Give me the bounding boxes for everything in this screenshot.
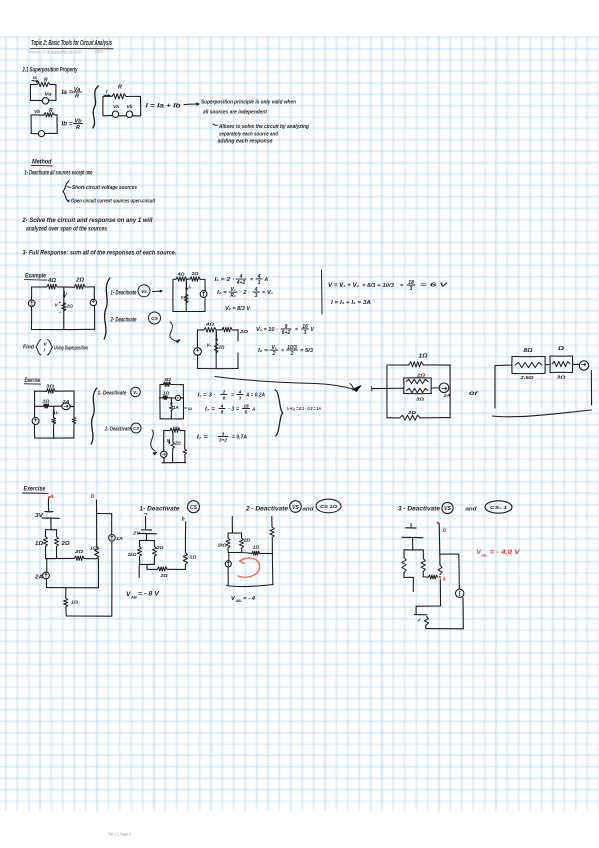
wire outer loop ex1 circuit [34,391,74,438]
svg-text:R: R [76,125,80,131]
resistor 2ohm ex1b mid [171,441,182,449]
curly brace ex1 [91,388,97,444]
svg-text:b: b [91,493,95,500]
brace ex1 results [275,390,283,436]
svg-text:R: R [118,85,122,91]
wire loop ex1 small circuit a [160,385,184,419]
wire node a down c3 [416,579,441,615]
equation ex1 I2 [205,403,256,415]
resistor 4ohm small1 [176,272,187,282]
svg-text:=: = [281,348,284,354]
voltage source Va [42,92,52,105]
current source 2A equiv [431,383,450,398]
resistor 2ohm c1 right [153,545,164,557]
svg-text:2Ω: 2Ω [155,545,164,550]
equation V2 small2 [256,324,315,336]
resistor R combined top [112,85,126,99]
current arrow I2 ex1 [53,409,59,415]
wire loop ex1 small circuit b [162,430,186,462]
long arrow to equivalent circuit [215,377,361,392]
svg-text:· 2 ·: · 2 · [240,290,250,296]
current arrow small2 [216,332,218,341]
wire loop small circuit 2 [197,330,238,369]
svg-text:separately each source and: separately each source and [219,132,279,138]
date line [30,49,104,55]
wire dangling c3 [412,578,414,592]
result VAB c2 [231,596,256,603]
svg-text:analyzed over span of the: analyzed over span of the sources [26,227,108,233]
resistor box 8ohm equiv2 [512,348,545,381]
svg-text:a: a [443,577,446,583]
resistor c3 left [402,558,406,573]
svg-text:Allows to solve the circuit by: Allows to solve the circuit by analyzing [218,124,310,130]
ex2 step 1 heading [140,501,200,513]
svg-text:adding each response: adding each response [218,139,273,145]
svg-text:Vs: Vs [141,289,147,295]
wire mid horizontal ex1a [159,397,183,399]
svg-text:1- Deactivate: 1- Deactivate [111,291,137,297]
resistor 1ohm c2 mid [252,545,260,556]
resistor 1ohm on b wire [90,546,99,559]
resistor 2ohm big bottom [74,549,84,560]
equation I = Ia + Ib [146,103,181,110]
wire middle branch small1 [185,279,187,311]
svg-text:1Ω: 1Ω [71,600,78,606]
svg-text:= 0.7A: = 0.7A [232,435,247,441]
svg-text:2Ω: 2Ω [159,573,168,578]
equation I1 line [215,274,269,286]
wire inner bottom big [47,587,99,589]
equation ex1b [197,431,248,443]
svg-text:Vb: Vb [127,104,133,109]
svg-text:a: a [50,493,54,500]
current source ex1a [175,395,180,400]
svg-text:4Ω: 4Ω [205,322,215,327]
swoosh arrow ex1 step2 [151,430,157,455]
result VAB3 red [477,549,521,558]
svg-text:1Ω: 1Ω [190,555,197,560]
svg-text:I₂ =: I₂ = [258,348,269,354]
battery 3V [35,512,59,530]
svg-text:Method: Method [32,159,52,166]
resistor R top of Va loop [37,78,50,87]
svg-text:Find: Find [23,345,35,351]
svg-text:R: R [44,78,48,84]
result VAB c1 [126,591,160,600]
svg-text:2Ω: 2Ω [242,538,251,543]
svg-text:2 - Deactivate: 2 - Deactivate [245,506,289,513]
note line2 [203,110,268,116]
svg-text:Exercise: Exercise [25,378,41,384]
svg-text:2Ω: 2Ω [416,373,426,378]
svg-text:V = V₁ + V₂: V = V₁ + V₂ [328,283,360,289]
curly brace combining circuits [93,86,98,128]
svg-text:= 6 V: = 6 V [420,283,449,289]
svg-text:=: = [250,277,253,283]
wire loop combined circuit [103,96,141,116]
svg-text:1Ω: 1Ω [35,541,43,547]
current arrow I2 small1 [186,282,192,290]
parallel box c2 [228,533,242,553]
resistor ex1a mid [170,405,179,411]
svg-text:1Ω: 1Ω [43,399,50,404]
ex2 step 2 heading [245,499,341,513]
node a label red [48,493,54,500]
current source 2A ex1 [61,399,70,410]
svg-text:Va: Va [113,104,120,109]
svg-text:5: 5 [245,409,248,415]
label approx ex1a [184,406,192,411]
heading Exercise 1 [24,378,40,384]
svg-text:I: I [66,292,68,298]
divider bar [321,270,324,314]
svg-text:I₁ = 3 ·: I₁ = 3 · [198,393,216,399]
svg-text:3: 3 [304,330,307,336]
equation Ia = Va/R [62,87,82,100]
resistor 1k c2 left [218,538,231,548]
svg-text:2Ω: 2Ω [239,329,249,334]
svg-text:10:02: 10:02 [95,49,104,54]
svg-text:= V₂: = V₂ [262,290,273,296]
parallel box c3 [404,550,424,578]
svg-text:I = I₁ + I₂ = 3A: I = I₁ + I₂ = 3A [331,300,371,306]
node a red c3 [439,576,446,583]
arrow to note [184,103,199,105]
equation ex1 total [287,406,321,412]
battery c3 [402,524,423,550]
svg-text:Open circuit current source: Open circuit current sources open-circui… [71,199,155,205]
svg-text:V₂: V₂ [207,343,212,348]
current source 2A left [34,572,50,580]
wire inner left big [46,559,48,573]
wire b to right branch [97,514,112,535]
wire box right c3 [423,576,428,578]
voltage source ex1 left [32,418,39,425]
resistor c3 to node a [429,575,438,579]
svg-text:2.5Ω: 2.5Ω [519,375,534,381]
resistor 2ohm equiv bottom [400,410,420,420]
svg-text:Ia: Ia [33,75,37,80]
method step 1 [25,171,93,177]
voltage source right example [90,299,96,305]
svg-text:V₂ = 8/3 V: V₂ = 8/3 V [225,306,251,312]
resistor 1ohm ex1a [163,391,170,400]
svg-text:I₂ =: I₂ = [217,290,228,296]
svg-text:3Ω: 3Ω [46,383,54,389]
equation I2 line [217,287,273,299]
svg-text:2.1 Superposition Property: 2.1 Superposition Property [22,67,78,74]
svg-text:1Ω: 1Ω [173,426,180,431]
resistor 1ohm c1 right branch [183,553,197,565]
svg-text:Va: Va [45,92,53,97]
swoosh arrow step2 [170,322,180,343]
svg-text:V: V [44,342,48,347]
svg-text:2: 2 [290,351,294,357]
red loop annotation [238,558,260,577]
wire bottom horizontal big [46,557,97,559]
note superposition validity line1 [201,100,296,106]
svg-text:VS: VS [444,506,451,512]
svg-text:CS: CS [133,426,139,431]
svg-text:I: I [44,348,46,353]
svg-text:Using Superposition: Using Superposition [54,346,88,352]
svg-text:CS₂ 1: CS₂ 1 [490,505,507,511]
svg-text:3: 3 [258,280,261,286]
step 2 deactivate CS [110,312,161,324]
resistor 3ohm ex1 top [46,383,55,393]
svg-text:2Ω: 2Ω [75,278,84,284]
resistor 2ohm c2 right [240,538,251,549]
result I total [331,300,371,306]
svg-text:A: A [264,277,269,283]
parallel box big circuit [45,530,56,559]
svg-text:Superposition principle is onl: Superposition principle is only valid wh… [201,100,296,106]
current source c3 [456,589,464,597]
svg-text:and: and [303,507,315,513]
svg-text:2Ω: 2Ω [190,271,199,276]
svg-text:=: = [400,283,404,289]
resistor 2ohm mid small2 [207,343,225,354]
svg-text:CS 1Ω: CS 1Ω [320,504,337,510]
svg-text:Exercise: Exercise [24,487,47,493]
svg-text:= - 8 V: = - 8 V [138,591,160,598]
node b label c1 [182,517,185,523]
wire right vertical c3 [459,554,464,629]
wire inner right big [97,559,99,588]
svg-text:I₂ =: I₂ = [205,407,216,413]
equation I2 small2 [258,345,313,357]
wire box right path c2 [242,553,273,554]
resistor 4ohm top left [47,278,57,289]
brace method options [63,181,69,202]
current source equiv2 [573,361,589,370]
ex1 step 2 [104,423,141,433]
voltage source Vb [38,131,44,137]
svg-text:1- Deactivate: 1- Deactivate [140,506,181,513]
svg-text:Ib =: Ib = [62,122,74,128]
heading Exercise 2 [23,487,49,494]
svg-text:R: R [75,94,79,100]
resistor 2ohm small1 [190,271,200,281]
svg-text:R₂: R₂ [230,293,236,299]
current arrow Ia [32,75,39,82]
resistor 2ohm big right [55,537,70,548]
wire source down c2 [227,567,229,585]
svg-text:V₀: V₀ [133,390,138,395]
svg-text:2A: 2A [442,393,450,398]
wire stub top c2 [231,517,233,534]
wire loop small circuit 1 [173,279,205,311]
parallel box c1 [140,540,155,564]
svg-text:b: b [443,527,447,534]
svg-text:V₂: V₂ [181,295,186,300]
resistor c3 bottom [418,617,429,626]
svg-text:I: I [106,90,108,96]
svg-text:Topic 2: Basic Tools for Circu: Topic 2: Basic Tools for Circuit Analysi… [31,38,112,47]
method option open-circuit [66,199,155,205]
resistor ex1b right [183,449,187,455]
svg-text:I₁+I₂ₐ = 0.1 · 0.2 = 1A: I₁+I₂ₐ = 0.1 · 0.2 = 1A [287,406,321,412]
svg-text:3: 3 [239,395,242,401]
result V total [328,280,449,292]
svg-text:2- Solve the circuit and r: 2- Solve the circuit and response on any… [21,218,152,224]
svg-text:V: V [311,327,315,333]
parallel resistor box equiv [404,378,432,394]
wire stub left equiv [372,387,404,392]
resistor 1ohm big left [35,537,48,548]
wire right vertical c2 [272,517,273,585]
voltage source left example [28,300,35,307]
note line4 [219,132,279,138]
svg-text:3: 3 [255,293,258,299]
wire bottom c2 [227,585,274,587]
node b label red [91,493,95,500]
note line3 [213,124,310,130]
svg-text:1A: 1A [116,536,124,542]
svg-text:R: R [49,108,53,114]
resistor c2 right vertical [270,527,274,538]
svg-text:3+2: 3+2 [219,437,227,443]
ex2 step 3 heading [398,501,512,514]
wire b branch c1 [184,522,186,553]
resistor 4ohm small2 [204,322,216,333]
svg-text:I = Ia + Ib: I = Ia + Ib [146,103,181,110]
svg-text:2Ω: 2Ω [407,410,417,415]
svg-text:Tab 1.2 Page 4: Tab 1.2 Page 4 [108,832,132,837]
svg-text:1A: 1A [173,405,179,410]
svg-text:Vb: Vb [34,109,40,114]
svg-text:I₂: I₂ [56,410,59,415]
svg-text:2: 2 [272,351,276,357]
wire middle horizontal ex1 [35,405,75,407]
step 1 deactivate Vs [111,285,163,297]
svg-text:2Ω: 2Ω [60,541,69,547]
wire bottom loop c3 [415,615,464,629]
svg-text:CS: CS [151,316,158,322]
svg-text:I₂: I₂ [189,285,192,290]
svg-text:2- Deactivate: 2- Deactivate [110,318,137,324]
current arrow ex1a [171,400,172,405]
resistor box 3ohm equiv2 [550,346,573,381]
word or [469,390,479,397]
svg-text:· 3 =: · 3 = [228,407,239,413]
wire node b down [96,500,98,547]
svg-text:= 5/3: = 5/3 [300,348,313,354]
svg-text:8Ω: 8Ω [524,348,533,354]
wire from node a [47,498,49,511]
svg-text:2V: 2V [132,531,141,537]
wire top left equiv2 [495,365,512,408]
resistor 3ohm equiv parallel bottom [407,388,429,401]
mark above battery c1 [145,513,148,528]
svg-text:or: or [469,390,479,397]
svg-text:6: 6 [223,395,226,401]
svg-text:2A: 2A [61,399,69,404]
wire c1 right to bottom [184,565,186,570]
curly brace example steps [104,278,110,339]
resistor 2ohm c1 bottom [158,567,168,578]
svg-text:and: and [466,507,478,513]
resistor 1ohm ex1b top [170,426,180,433]
resistor ex1 right [72,417,76,424]
resistor 3ohm ex1a [164,377,172,386]
equation Ib = Vb/R [62,118,83,131]
svg-text:I₂ =: I₂ = [197,435,209,441]
current arrow I middle [63,291,67,298]
svg-text:2- Deactivate: 2- Deactivate [104,427,131,433]
svg-text:A = 0.2A: A = 0.2A [245,393,265,399]
wire bottom path c1 [147,565,185,570]
resistor on b wire c3 [438,565,442,575]
wire mid vertical ex1b [172,431,174,463]
svg-text:=: = [231,393,234,399]
resistor ex1 mid vertical [52,418,56,425]
svg-text:1Ω: 1Ω [419,354,428,360]
wire outer box equivalent circuit 1 [387,365,451,418]
svg-text:2A: 2A [34,575,44,581]
page title handwritten "Topic 2: Basic Tools for Circuit Analysis" [30,38,113,49]
note line5 [218,139,273,145]
wire loop circuit Va [30,84,56,100]
svg-text:2Ω: 2Ω [174,441,182,446]
svg-text:4Ω: 4Ω [47,278,56,284]
current source c2 [225,561,231,567]
svg-text:=: = [295,327,298,333]
method option short-circuit [67,185,137,191]
svg-text:2Ω: 2Ω [74,549,84,555]
svg-text:1- Deactivate: 1- Deactivate [98,391,128,397]
resistor c3 right [421,559,425,572]
svg-text:A: A [251,407,256,413]
wire loop circuit Vb [31,115,57,134]
resistor 2ohm middle [55,300,74,315]
current source ex1b [161,451,167,457]
wire b down c3 [438,524,441,566]
wire between boxes equiv2 [545,364,550,366]
svg-text:+: + [59,300,62,305]
ex1 step 1 [98,387,141,397]
method step 3 [22,251,176,257]
svg-text:1kΩ: 1kΩ [218,543,227,548]
current arrow ex1b [167,438,171,444]
svg-text:1Ω: 1Ω [253,545,260,550]
wire bottom equiv2 [493,410,592,417]
heading Example [25,273,48,281]
svg-text:3- Full Response: sum all of: 3- Full Response: sum all of the respons… [22,251,176,257]
svg-text:all sources are independent: all sources are independent [203,110,268,116]
equation V2 result [225,306,251,312]
svg-text:6+2: 6+2 [282,330,291,336]
battery 2V c1 [132,530,157,541]
method step 2 line1 [21,218,152,224]
resistor 2ohm equiv parallel top [406,373,428,384]
svg-text:Example: Example [25,273,46,280]
svg-text:2Ω: 2Ω [66,304,74,310]
svg-text:= 8/3 + 10/3: = 8/3 + 10/3 [362,283,395,289]
svg-text:1Ω: 1Ω [163,391,170,396]
voltage source 10V small2 [194,348,202,356]
current arrow I combined [104,90,110,97]
voltage source Va in combined [112,104,119,117]
svg-text:= ω: = ω [184,406,192,411]
svg-text:1- Deactivate all sources e: 1- Deactivate all sources except one [25,171,93,177]
wire right vertical big [111,541,113,616]
svg-text:AB: AB [130,595,137,600]
svg-text:= - 4: = - 4 [243,596,256,602]
svg-text:I₁ = 2 ·: I₁ = 2 · [215,277,235,283]
svg-text:= - 4.0 V: = - 4.0 V [490,549,521,556]
svg-text:3V: 3V [35,513,44,519]
